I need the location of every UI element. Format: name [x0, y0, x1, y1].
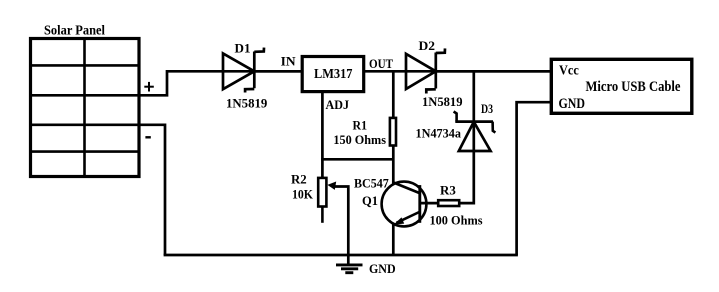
pin ADJ wire: [321, 92, 324, 178]
potentiometer R2 10K: [318, 178, 326, 223]
svg-text:Solar Panel: Solar Panel: [44, 24, 105, 39]
svg-text:LM317: LM317: [314, 66, 353, 81]
wire R3 to D3 anode: [460, 122, 474, 204]
resistor R3: [438, 200, 459, 206]
svg-text:1N5819: 1N5819: [422, 94, 463, 109]
connector J1 Micro USB Cable: [551, 59, 692, 113]
diode D2 (1N5819 schottky): [406, 48, 445, 93]
svg-text:D2: D2: [419, 38, 436, 53]
wire Q1 emitter to ground rail: [392, 224, 395, 256]
svg-text:ADJ: ADJ: [326, 97, 350, 112]
svg-text:D1: D1: [235, 41, 251, 56]
transistor Q1 BC547: [382, 182, 427, 227]
wire ground rail: [164, 254, 518, 257]
wire ADJ to R1 bottom: [321, 158, 393, 161]
svg-text:OUT: OUT: [369, 56, 393, 71]
svg-text:10K: 10K: [292, 187, 314, 202]
svg-text:Q1: Q1: [362, 193, 378, 208]
svg-text:Micro USB Cable: Micro USB Cable: [586, 79, 681, 95]
wiper arrowhead: [327, 182, 336, 190]
svg-text:IN: IN: [281, 53, 297, 68]
svg-text:1N4734a: 1N4734a: [416, 126, 462, 141]
regulator U1 LM317: [302, 57, 364, 92]
svg-text:100 Ohms: 100 Ohms: [430, 213, 483, 228]
resistor R1: [390, 118, 396, 146]
zener diode D3 (1N4734a): [454, 112, 496, 152]
wire USB GND to ground rail: [517, 102, 551, 255]
emitter arrowhead: [394, 217, 405, 224]
svg-text:1N5819: 1N5819: [226, 96, 268, 111]
svg-text:Vcc: Vcc: [559, 64, 579, 79]
svg-text:150 Ohms: 150 Ohms: [333, 132, 386, 147]
svg-text:BC547: BC547: [354, 176, 389, 191]
wire plus terminal to D1 anode: [139, 71, 302, 95]
wire D1 cathode to LM317 IN: [254, 70, 302, 73]
svg-text:R1: R1: [353, 118, 368, 133]
wire minus terminal down to ground rail: [139, 125, 165, 255]
wire Q1 base to R3: [420, 202, 438, 205]
svg-text:R3: R3: [440, 183, 456, 198]
wire D3 cathode up to Vcc rail: [472, 71, 475, 121]
ground symbol: [336, 255, 363, 273]
svg-text:GND: GND: [559, 96, 586, 112]
svg-text:D3: D3: [481, 101, 493, 116]
wire LM317 OUT to D2 anode: [365, 70, 552, 73]
node minus terminal: [145, 136, 150, 138]
diode D1 (1N5819 schottky): [223, 48, 264, 93]
svg-text:R2: R2: [291, 172, 307, 187]
wire R1 bottom to Q1 collector: [392, 145, 395, 184]
solar panel PV1: [29, 37, 140, 178]
node plus terminal: [144, 82, 154, 92]
wire D2 cathode to USB Vcc: [436, 70, 551, 73]
svg-text:GND: GND: [369, 261, 396, 276]
wire OUT node down to R1 top: [392, 71, 395, 118]
wire R2 wiper to ground rail: [334, 187, 348, 256]
